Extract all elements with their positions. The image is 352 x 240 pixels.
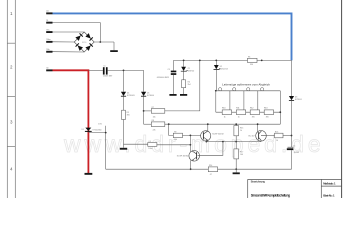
svg-text:B250: B250 <box>82 42 86 44</box>
resistor R9 <box>173 133 182 137</box>
bottom rail wire <box>106 168 292 170</box>
ground (C3) <box>169 94 176 96</box>
svg-text:SY360/05: SY360/05 <box>127 95 135 97</box>
wire R17 bottom to ground <box>235 159 237 173</box>
svg-text:Bezeichnung: Bezeichnung <box>251 181 266 184</box>
node R17 bottom rail <box>235 168 237 170</box>
svg-text:www.ddr-moped.de: www.ddr-moped.de <box>63 131 325 157</box>
svg-text:Leiterzüge auftrennen zum Abgl: Leiterzüge auftrennen zum Abgleich <box>222 82 270 86</box>
wire R8 right to mid rail <box>165 123 280 125</box>
capacitor C4 <box>148 143 157 147</box>
red wire from pin 30 to node and down to ground <box>53 70 89 173</box>
svg-text:C5: C5 <box>293 146 295 148</box>
pin 5 <box>46 51 52 53</box>
zener diode Z1 <box>183 60 185 66</box>
jumper circle 2 <box>233 88 236 91</box>
ground (bridge) <box>110 50 118 52</box>
svg-text:2500V 4M7: 2500V 4M7 <box>103 76 112 78</box>
node D1 wire junction <box>105 132 107 134</box>
wire R5 to ground <box>123 120 125 148</box>
chain drop 3 <box>243 91 245 112</box>
wire red node to C1 <box>88 69 103 71</box>
svg-text:22k: 22k <box>153 130 156 132</box>
rail y=60.4 <box>174 59 292 61</box>
node C4 line x190 <box>190 144 192 146</box>
node chain right <box>279 111 281 113</box>
resistor R17 <box>234 149 239 159</box>
svg-text:4µ100: 4µ100 <box>294 152 299 154</box>
resistor R15 <box>234 126 239 136</box>
svg-text:1k: 1k <box>238 117 240 119</box>
svg-text:R10: R10 <box>222 108 225 110</box>
pin 3 <box>46 31 52 33</box>
pin 6 (red supply 30) <box>46 69 52 71</box>
wire R15 top <box>235 124 237 125</box>
svg-text:Simson EWR Komplettschaltung: Simson EWR Komplettschaltung <box>251 194 290 198</box>
svg-text:10k: 10k <box>174 139 177 141</box>
svg-text:C3: C3 <box>167 69 169 71</box>
svg-text:C4: C4 <box>148 141 150 143</box>
resistor R12 <box>250 110 259 115</box>
node R15 top <box>235 123 237 125</box>
wire bridge right corner to ground branch <box>94 41 114 43</box>
chain drop 1 <box>215 91 217 112</box>
node chain 3 <box>243 111 245 113</box>
node R7 riser top <box>199 60 201 62</box>
pin 4 <box>46 41 52 43</box>
wire T4 bottom <box>260 141 262 142</box>
node rail left <box>215 90 217 92</box>
resistor R11 <box>236 110 245 115</box>
bridge rectifier B250 diamond <box>74 32 94 52</box>
svg-text:D1: D1 <box>82 129 84 131</box>
resistor R7 <box>151 109 165 114</box>
svg-text:Blatt-Nr.: 1: Blatt-Nr.: 1 <box>323 194 335 198</box>
capacitor C5 electrolytic <box>288 146 294 148</box>
wire node to R7 <box>144 110 152 112</box>
jumper circle 4 <box>261 88 264 91</box>
wire R15 bottom <box>235 136 237 149</box>
node emitter rail x222.9 <box>222 141 224 143</box>
node D4 branch <box>123 70 125 72</box>
bridge diode top-left <box>75 33 83 41</box>
wire chain right end down to mid rail <box>279 91 281 124</box>
resistor R4 <box>182 80 186 88</box>
svg-text:2k4: 2k4 <box>188 84 191 86</box>
wire D1 tap to riser <box>88 133 105 170</box>
frame right border <box>341 0 343 198</box>
wire T3 emitter down <box>190 160 192 169</box>
svg-text:10k: 10k <box>153 116 156 118</box>
svg-text:R13: R13 <box>264 108 267 110</box>
node emitter rail x236 <box>235 141 237 143</box>
wire pin2 to bridge output node <box>53 23 101 42</box>
wire D4 to R5 <box>123 96 125 110</box>
chain drop 2 <box>229 91 231 112</box>
node T2 collector <box>207 123 209 125</box>
resistor R10 <box>222 110 231 115</box>
wire T3 base feed <box>198 142 223 156</box>
svg-text:R9: R9 <box>174 132 176 134</box>
svg-text:KY201/060: KY201/060 <box>93 129 102 131</box>
wire C5 down to bottom rail corner <box>291 150 293 169</box>
wire T3 collector vertical <box>189 135 191 151</box>
svg-text:SZX700: SZX700 <box>188 70 195 72</box>
frame left column strip <box>7 0 15 198</box>
ground (R5) <box>120 148 127 150</box>
svg-text:100: 100 <box>240 154 243 156</box>
svg-text:Gl2000G 4M25: Gl2000G 4M25 <box>157 77 169 79</box>
svg-text:SC/SF 345 B2: SC/SF 345 B2 <box>212 133 224 135</box>
wire node to D4 <box>123 70 125 91</box>
diode D1 on red wire <box>85 128 91 131</box>
transistor T2 <box>201 131 211 141</box>
zener diode D2 <box>215 60 217 65</box>
wire T4 to R16 <box>266 135 274 137</box>
diode D4 <box>121 92 126 96</box>
wire C4 line (y=144.2) <box>124 143 148 145</box>
wire T2 emitter rail to T4 <box>206 140 261 142</box>
svg-text:C1: C1 <box>103 66 105 68</box>
ground (R17) <box>233 172 240 174</box>
wire 15V stub <box>105 126 107 133</box>
wire blue corner down <box>291 60 293 96</box>
chain drop 4 <box>257 91 259 112</box>
chain line <box>216 111 280 113</box>
wire C4 to T3 collector node <box>157 144 191 146</box>
svg-text:SZX20/13: SZX20/13 <box>220 68 228 70</box>
pin 2 <box>46 22 52 24</box>
wire D3 down <box>291 101 293 148</box>
wire T4 top to mid rail <box>257 124 259 132</box>
node T2 emitter <box>206 141 208 143</box>
svg-text:R16: R16 <box>275 132 278 134</box>
wire down to ground <box>113 42 115 50</box>
svg-text:390: 390 <box>127 114 130 116</box>
resistor R8 <box>151 122 165 127</box>
resistor R13 <box>264 110 273 115</box>
jumper circle 3 <box>247 88 250 91</box>
transistor T4 <box>256 131 267 142</box>
wire R9 to T2 base <box>183 134 201 136</box>
wire C1 to corner <box>108 69 144 71</box>
diode D3 <box>289 96 294 100</box>
node D2 tap <box>215 60 217 62</box>
wire R16 to right vertical <box>283 135 292 137</box>
bridge diode top-right <box>85 33 93 41</box>
node zener tap <box>183 60 185 62</box>
wire R7 right to riser <box>165 60 200 111</box>
svg-text:R12: R12 <box>250 108 253 110</box>
svg-text:R11: R11 <box>236 108 239 110</box>
svg-text:390: 390 <box>252 117 255 119</box>
resistor R16 <box>275 133 284 138</box>
bridge diode bottom-right <box>85 43 93 51</box>
capacitor C3 electrolytic <box>173 60 175 70</box>
node right of R6 <box>261 60 263 62</box>
capacitor C1 (series) <box>103 67 105 74</box>
svg-text:R14: R14 <box>209 165 212 167</box>
svg-text:SC/SF 308 B2: SC/SF 308 B2 <box>177 156 189 158</box>
wire riser to R9 <box>169 124 174 135</box>
svg-text:100n: 100n <box>148 148 152 150</box>
svg-text:SY360/4: SY360/4 <box>147 95 154 97</box>
node bridge output <box>99 41 101 43</box>
svg-text:R8: R8 <box>152 120 154 122</box>
jumper rail <box>216 90 280 92</box>
svg-text:R7: R7 <box>152 107 154 109</box>
wire corner down to D5 <box>143 70 145 91</box>
node T3 collector tap <box>190 135 192 137</box>
node chain 2 <box>229 111 231 113</box>
wire T2 collector to mid rail <box>207 124 209 131</box>
svg-text:Maßstab: 1: Maßstab: 1 <box>323 182 336 186</box>
jumper circle 1 <box>219 88 222 91</box>
svg-text:390: 390 <box>266 117 269 119</box>
svg-text:BC 307: BC 307 <box>249 136 255 138</box>
pin 1 (blue supply) <box>46 12 52 14</box>
blue wire from pin1 to right and down <box>53 13 292 60</box>
resistor R6 on rail <box>248 58 258 62</box>
resistor R14 <box>208 167 217 172</box>
ground (red line bottom) <box>85 173 93 175</box>
svg-text:R6: R6 <box>248 57 250 59</box>
node T4 top <box>257 123 259 125</box>
transistor T3 (mirrored, base on right) <box>189 151 200 162</box>
node chain 4 <box>257 111 259 113</box>
ground (R4) <box>180 94 187 96</box>
title block <box>248 179 342 198</box>
wire R8 left corner <box>144 123 152 125</box>
node R7 tap <box>143 110 145 112</box>
node R16 <box>291 135 293 137</box>
svg-text:10: 10 <box>276 140 278 142</box>
svg-text:390: 390 <box>250 64 253 66</box>
node R8/rail/R9 junction <box>168 123 170 125</box>
resistor R5 <box>122 110 126 119</box>
svg-text:47: 47 <box>210 174 212 176</box>
wire pin5 to bridge bottom corner <box>53 51 85 53</box>
svg-text:SY360/1: SY360/1 <box>295 99 302 101</box>
svg-text:1k: 1k <box>240 130 242 132</box>
node T3 emitter <box>190 168 192 170</box>
diode D5 <box>141 92 146 96</box>
bridge diode bottom-left <box>75 43 83 51</box>
wire T2 emitter down <box>207 140 209 141</box>
wire pin4 to bridge left corner <box>53 41 75 43</box>
wire pin3 to bridge top corner <box>53 31 85 33</box>
svg-text:1k: 1k <box>224 117 226 119</box>
wire D5 down <box>143 96 145 124</box>
